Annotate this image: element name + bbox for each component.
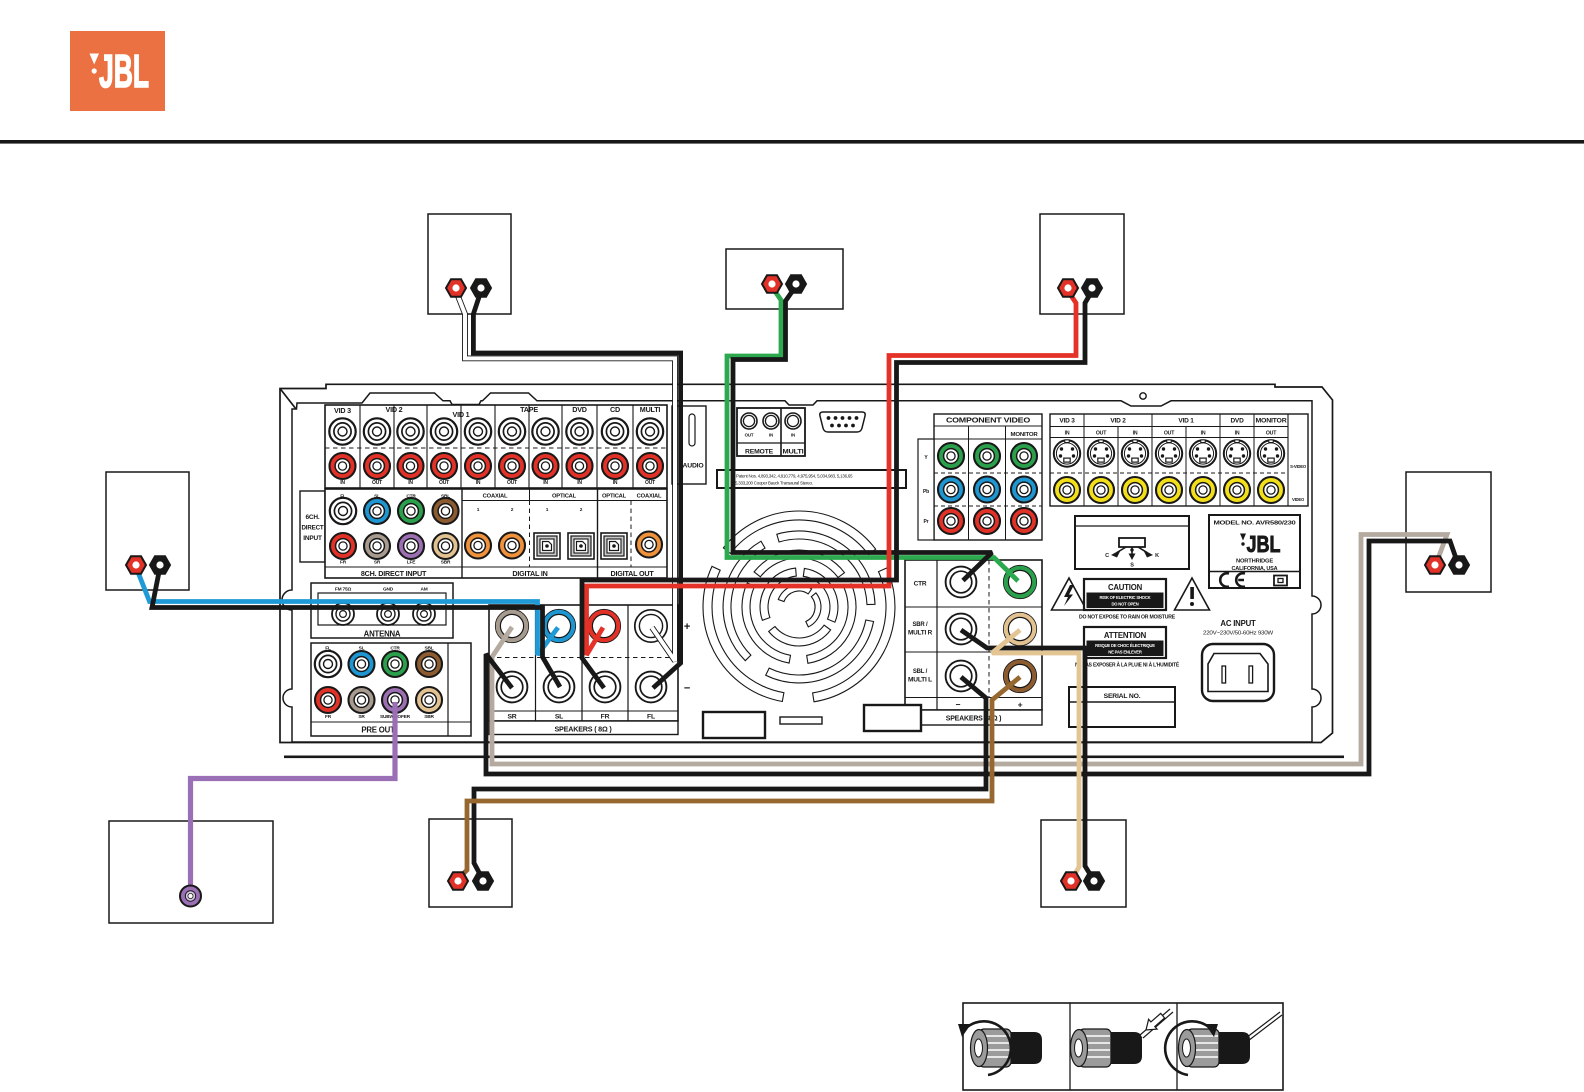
cooling fan grille (703, 511, 895, 702)
wire FL- black (473, 291, 680, 688)
speaker block labels (507, 714, 655, 734)
digital out coaxial jack (636, 532, 662, 558)
svg-text:VID 1: VID 1 (453, 410, 470, 419)
svg-text:RISQUE DE CHOC ÉLECTRIQUE: RISQUE DE CHOC ÉLECTRIQUE (1095, 643, 1155, 648)
svg-text:DO NOT OPEN: DO NOT OPEN (1111, 602, 1138, 607)
binding post FL red (+) (446, 279, 466, 296)
patent text box (717, 470, 906, 488)
svg-text:FR: FR (325, 714, 332, 720)
svg-text:C: C (1105, 553, 1109, 559)
S-VIDEO VIDEO panel frame (1050, 414, 1308, 506)
right block plus terminals CTR green SBR tan SBL brown (1004, 566, 1037, 693)
svg-text:RISK OF ELECTRIC SHOCK: RISK OF ELECTRIC SHOCK (1100, 595, 1151, 600)
audio grid source labels (334, 405, 660, 419)
AC INPUT labels (1203, 619, 1274, 637)
wire FR+ red: from FR speaker red post to FR terminal (587, 291, 1077, 655)
svg-text:8CH. DIRECT INPUT: 8CH. DIRECT INPUT (361, 569, 427, 578)
svg-text:VID 3: VID 3 (334, 406, 351, 415)
svg-text:SL: SL (374, 494, 380, 500)
svg-text:DIRECT: DIRECT (302, 525, 324, 532)
svg-text:FL: FL (340, 494, 346, 500)
pre out jacks FL SL CTR SBL / FR SR SUBWOOFER SBR (315, 651, 442, 713)
wire SL- black (152, 567, 560, 687)
svg-text:IN: IN (408, 480, 413, 486)
svg-text:IN: IN (1235, 431, 1240, 437)
svg-text:OUT: OUT (745, 433, 754, 438)
component video jacks Pb row blue (938, 477, 1037, 503)
wire SR+ gray: from SR terminal to SR speaker red post (492, 535, 1447, 765)
8ch jack labels (340, 494, 451, 566)
svg-text:SPEAKERS ( 8Ω ): SPEAKERS ( 8Ω ) (554, 725, 612, 734)
svg-text:IN: IN (1201, 431, 1206, 437)
svg-text:IN: IN (543, 480, 548, 486)
svg-text:5,333,200 Cooper Bauck Transa: 5,333,200 Cooper Bauck Transaural Stereo… (735, 481, 813, 486)
svg-text:Patent Nos. 4,893,342, 4,910,: Patent Nos. 4,893,342, 4,910,779, 4,975,… (736, 474, 853, 479)
speaker box FR (front right) (1040, 214, 1124, 314)
component video jacks Pr row red (938, 508, 1037, 534)
svg-text:IN: IN (1065, 431, 1070, 437)
svg-text:LFE: LFE (407, 560, 416, 566)
svg-text:SR: SR (374, 560, 381, 566)
audio input/output jack grid frame (325, 405, 667, 488)
SPEAKERS 8ohm block CTR SBR SBL frame (905, 560, 1042, 725)
ANTENNA terminal box (311, 583, 453, 638)
svg-text:SL: SL (359, 646, 365, 652)
svg-text:IN: IN (577, 480, 582, 486)
svg-text:OPTICAL: OPTICAL (552, 494, 577, 500)
svg-text:−: − (684, 683, 690, 695)
svg-text:+: + (684, 621, 690, 633)
svg-text:NORTHRIDGE: NORTHRIDGE (1236, 559, 1273, 565)
subwoofer RCA plug (180, 886, 201, 907)
speaker terminals plus row SR SL FR FL (496, 610, 668, 643)
binding post SR black (-) (1449, 556, 1469, 573)
wire SBR+ tan (992, 630, 1079, 879)
svg-text:VID 1: VID 1 (1178, 418, 1194, 425)
header divider rule (0, 140, 1584, 144)
svg-text:AM: AM (420, 587, 427, 593)
svg-text:IN: IN (476, 480, 481, 486)
wire CTR- black (733, 286, 992, 581)
svg-text:−: − (956, 700, 961, 710)
svg-text:VID 2: VID 2 (386, 405, 403, 414)
wire FL+ white: from FL speaker red post to FL speaker terminal (456, 291, 675, 661)
svg-text:VIDEO: VIDEO (1292, 497, 1305, 502)
svg-text:K: K (1155, 553, 1159, 559)
wire SBL+ brown (459, 677, 1020, 878)
svg-text:FL: FL (325, 646, 331, 652)
binding post FR red (+) (1058, 279, 1078, 296)
wire SBR- black: from SBR terminal to SBR speaker black post (961, 630, 1093, 879)
COMPONENT VIDEO panel frame (918, 414, 1042, 540)
svg-text:SBL: SBL (441, 494, 450, 500)
SERIAL NO box (1069, 687, 1175, 727)
8CH DIRECT INPUT / DIGITAL IN / DIGITAL OUT panel frame (325, 489, 667, 578)
svg-text:IN: IN (769, 433, 773, 438)
svg-text:FR: FR (340, 560, 347, 566)
svg-text:OUT: OUT (645, 480, 655, 486)
svg-text:COAXIAL: COAXIAL (637, 494, 662, 500)
wire SL+ blue: from SL speaker red post to SL terminal (136, 567, 558, 655)
6CH DIRECT INPUT side label box (300, 491, 325, 562)
digital in optical jacks 1 and 2 (534, 507, 594, 559)
svg-text:VID 2: VID 2 (1110, 418, 1126, 425)
svg-text:OUT: OUT (439, 480, 449, 486)
model number label box (1209, 515, 1300, 588)
svg-text:Pb: Pb (923, 489, 929, 495)
binding post SR red (+) (1425, 556, 1445, 573)
svg-text:OUT: OUT (372, 480, 382, 486)
binding post FR black (-) (1082, 279, 1102, 296)
svg-text:DIGITAL IN: DIGITAL IN (512, 569, 547, 578)
svg-text:+: + (1018, 700, 1023, 710)
digital section labels (361, 494, 662, 579)
digital in coaxial jacks 1 and 2 (465, 507, 525, 559)
right block minus terminals (946, 567, 977, 692)
svg-text:JBL: JBL (1247, 531, 1281, 557)
REMOTE MULTI jack box (737, 408, 805, 456)
svg-text:CTR: CTR (406, 494, 416, 500)
svg-text:OUT: OUT (1266, 431, 1277, 437)
svg-text:CALIFORNIA, USA: CALIFORNIA, USA (1232, 566, 1278, 572)
svg-text:MULTI R: MULTI R (908, 631, 933, 637)
svg-text:MULTI: MULTI (783, 449, 804, 456)
svg-text:JBL: JBL (99, 45, 149, 97)
svg-text:OUT: OUT (1096, 431, 1107, 437)
wire CTR+ green: from CTR speaker red post to CTR terminal (727, 287, 1018, 581)
svg-text:TAPE: TAPE (520, 405, 538, 414)
svg-text:ANTENNA: ANTENNA (364, 630, 401, 639)
speaker box SL (surround left) (106, 472, 189, 590)
svg-text:DIGITAL OUT: DIGITAL OUT (610, 569, 654, 578)
binding post SBR black (-) (1084, 872, 1104, 889)
svg-text:COMPONENT VIDEO: COMPONENT VIDEO (946, 418, 1031, 425)
svg-text:INPUT: INPUT (303, 535, 322, 542)
component video jacks Y row green (938, 443, 1037, 469)
svg-text:DVD: DVD (1230, 418, 1244, 425)
RS-232 DB9 connector (820, 412, 865, 432)
CAUTION label box (1084, 579, 1166, 610)
svg-text:SL: SL (555, 714, 563, 721)
svg-text:IN: IN (1133, 431, 1138, 437)
speaker box SR (surround right) (1406, 472, 1491, 592)
svg-text:CTR: CTR (390, 646, 400, 652)
svg-text:MONITOR: MONITOR (1011, 432, 1038, 438)
vent slots under fan (703, 705, 921, 738)
s-video jack row (1054, 440, 1284, 467)
svg-text:MULTI L: MULTI L (908, 678, 933, 684)
svg-text:PRE OUT: PRE OUT (361, 726, 395, 735)
svg-text:SBL: SBL (425, 646, 434, 652)
receiver chassis outer outline (280, 384, 1333, 742)
svg-text:SERIAL NO.: SERIAL NO. (1104, 693, 1141, 700)
wire SBL- black: from SBL terminal to SBL speaker black post (474, 677, 986, 878)
binding post SBR red (+) (1061, 872, 1081, 889)
exclamation warning triangle (1175, 578, 1210, 610)
receiver chassis corner chamfer (280, 389, 296, 410)
IEC power inlet (1202, 644, 1274, 701)
svg-text:MONITOR: MONITOR (1256, 418, 1288, 425)
speaker box SBR (surround back right) (1041, 820, 1126, 907)
audio grid IN/OUT labels (340, 480, 655, 486)
receiver rear panel inner outline with top bumps and edge notches (282, 393, 1321, 742)
JBL logo (70, 31, 165, 111)
instruction panel 3: tighten binding post cap (1165, 1012, 1282, 1075)
wire FR- black (582, 291, 1092, 688)
svg-text:S-VIDEO: S-VIDEO (1290, 464, 1307, 469)
RCA jack row audio R (red) (330, 453, 664, 479)
binding post CTR red (+) (762, 275, 782, 292)
svg-text:NE PAS ENLEVER: NE PAS ENLEVER (1108, 650, 1142, 655)
svg-text:MULTI: MULTI (640, 405, 661, 414)
wire SR- black (486, 541, 1458, 774)
svg-text:VID 3: VID 3 (1059, 418, 1075, 425)
svg-text:FL: FL (647, 714, 655, 721)
composite video jack row yellow (1054, 477, 1284, 503)
binding post SL red (+) (126, 556, 146, 573)
svg-text:DVD: DVD (572, 405, 587, 414)
svg-text:REMOTE: REMOTE (745, 449, 774, 456)
SPEAKERS 8ohm block SR SL FR FL frame (489, 605, 678, 735)
svg-text:S: S (1130, 563, 1134, 569)
instruction panel 1: unscrew binding post cap (958, 1021, 1042, 1075)
svg-text:SR: SR (507, 714, 516, 721)
pre out labels (325, 646, 434, 735)
speaker box SBL (surround back left) (429, 819, 512, 907)
binding post SBL red (+) (448, 872, 468, 889)
digital out optical jack (601, 533, 627, 559)
binding post CTR black (-) (786, 275, 806, 292)
svg-text:SBR: SBR (441, 560, 451, 566)
s-video panel labels (1059, 418, 1306, 503)
lightning warning triangle (1052, 578, 1087, 610)
speaker box CTR (center) (726, 249, 843, 309)
binding post SBL black (-) (473, 872, 493, 889)
svg-text:ATTENTION: ATTENTION (1104, 631, 1147, 640)
speaker box SUBWOOFER (109, 821, 273, 923)
chassis front-edge line under receiver (284, 756, 1344, 759)
svg-text:MODEL NO. AVR580/230: MODEL NO. AVR580/230 (1214, 521, 1296, 527)
8ch direct input jacks FL SL CTR SBL / FR SR LFE SBR (330, 498, 459, 559)
audio L/R AUDIO label box (672, 406, 706, 484)
output device mounting diagram box (1075, 516, 1189, 569)
svg-text:SBR /: SBR / (912, 622, 928, 628)
svg-text:OUT: OUT (1164, 431, 1175, 437)
binding post FL black (-) (471, 279, 491, 296)
svg-text:6CH.: 6CH. (305, 514, 319, 521)
svg-text:SBL /: SBL / (913, 669, 928, 675)
instruction panel 2: insert speaker wire (1071, 1009, 1174, 1067)
ATTENTION label box (1084, 627, 1166, 658)
binding post SL black (-) (150, 556, 170, 573)
antenna jacks FM75 GND AM (332, 603, 435, 625)
svg-text:IN: IN (340, 480, 345, 486)
speaker box FL (front left) (428, 214, 511, 314)
svg-text:CTR: CTR (914, 581, 927, 588)
svg-text:DO NOT EXPOSE TO RAIN OR MOIST: DO NOT EXPOSE TO RAIN OR MOISTURE (1079, 615, 1176, 621)
RCA jack row audio L (white): VID3 IN, VID2 OUT/IN, VID1 OUT/IN, TAPE OUT/IN, DVD IN, CD IN, MULTI OUT (329, 418, 663, 444)
svg-text:CAUTION: CAUTION (1108, 583, 1143, 592)
svg-text:SBR: SBR (424, 714, 434, 720)
right block labels (908, 581, 1023, 723)
svg-text:FM 75Ω: FM 75Ω (335, 587, 352, 593)
svg-text:AC INPUT: AC INPUT (1220, 619, 1256, 628)
svg-text:NE PAS EXPOSER À LA PLUIE NI À: NE PAS EXPOSER À LA PLUIE NI À L’HUMIDIT… (1075, 661, 1180, 669)
svg-text:AUDIO: AUDIO (683, 463, 704, 470)
svg-text:OPTICAL: OPTICAL (602, 494, 627, 500)
svg-text:IN: IN (791, 433, 795, 438)
plus and minus marks (684, 621, 690, 695)
svg-text:OUT: OUT (507, 480, 517, 486)
binding post instruction panels frame (963, 1003, 1283, 1090)
svg-text:FR: FR (601, 714, 610, 721)
svg-text:COAXIAL: COAXIAL (483, 494, 508, 500)
screw on top edge (1140, 393, 1146, 399)
svg-text:220V~230V/50-60Hz 930W: 220V~230V/50-60Hz 930W (1203, 631, 1274, 637)
svg-text:SR: SR (358, 714, 365, 720)
wire subwoofer purple: from PRE OUT SUBWOOFER jack to subwoofer (191, 702, 396, 890)
svg-text:GND: GND (383, 587, 394, 593)
PRE OUT panel frame (311, 643, 471, 736)
svg-text:CD: CD (610, 405, 620, 414)
speaker terminals minus row (497, 672, 667, 703)
svg-text:Pr: Pr (924, 519, 929, 525)
svg-text:IN: IN (613, 480, 618, 486)
